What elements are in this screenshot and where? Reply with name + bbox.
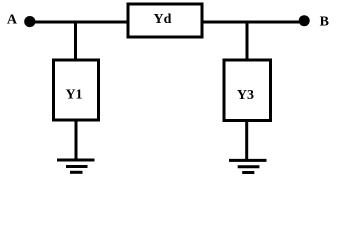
wire Yd to B	[202, 21, 304, 24]
svg-text:B: B	[320, 15, 329, 30]
admittance box Yd	[128, 4, 202, 37]
ground (left)	[57, 160, 95, 172]
svg-text:A: A	[7, 13, 18, 28]
admittance box Y3	[224, 60, 271, 121]
admittance box Y1	[54, 60, 99, 120]
svg-text:Y3: Y3	[237, 88, 254, 103]
wire A to Yd	[30, 21, 128, 24]
wire Y1 to ground	[75, 120, 78, 160]
svg-text:Y1: Y1	[65, 88, 82, 103]
ground (right)	[229, 160, 267, 172]
terminal dot A	[24, 16, 35, 27]
wire junction to Y3	[246, 22, 249, 60]
wire Y3 to ground	[245, 121, 248, 161]
terminal dot B	[299, 15, 310, 26]
svg-text:Yd: Yd	[154, 12, 172, 27]
wire junction to Y1	[74, 22, 77, 60]
